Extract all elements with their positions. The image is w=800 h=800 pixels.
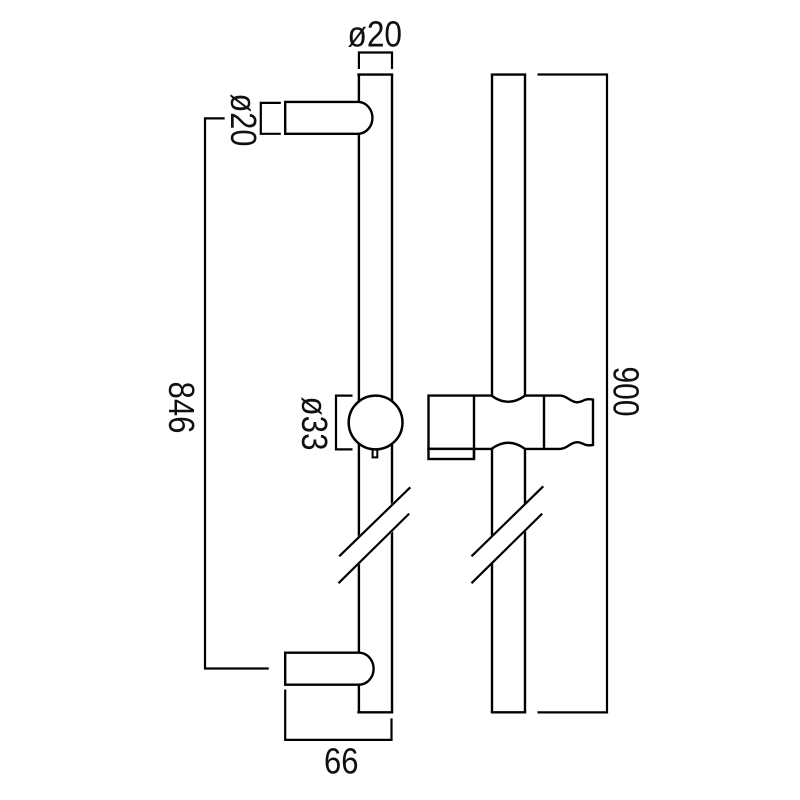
front view break slash upper <box>339 487 410 556</box>
side view break slash lower <box>472 514 543 584</box>
top wall bracket arm (front view) <box>285 102 372 134</box>
svg-text:ø20: ø20 <box>223 94 264 147</box>
svg-text:66: 66 <box>324 741 359 782</box>
front view break gap <box>339 500 410 569</box>
slider knob circle <box>349 396 403 450</box>
holder cup divider <box>543 396 545 449</box>
dimension bracket rail diameter top <box>359 53 392 70</box>
side view rail top cap <box>491 73 526 75</box>
dimension line 900 <box>538 75 608 713</box>
dimension line 846 <box>205 118 269 668</box>
dimension bracket arm tube diameter <box>261 103 281 134</box>
bottom wall bracket arm (front view) <box>285 653 373 685</box>
side view rail right edge <box>524 75 526 713</box>
svg-text:ø33: ø33 <box>294 397 335 451</box>
shower head holder body (side view) <box>429 396 594 449</box>
svg-text:846: 846 <box>161 382 202 434</box>
front view rail right edge <box>391 75 393 713</box>
dimension bracket knob diameter <box>336 396 353 450</box>
front view rail top cap <box>357 73 393 75</box>
holder wall plate lower strip <box>429 449 475 459</box>
side view break slash upper <box>472 486 544 556</box>
front view break slash lower <box>339 514 410 584</box>
side view break gap <box>472 500 543 570</box>
side view rail bottom cap <box>491 711 526 713</box>
svg-text:ø20: ø20 <box>348 14 403 55</box>
dimension line 66 <box>285 690 391 740</box>
slider knob tab <box>373 445 378 457</box>
svg-text:900: 900 <box>606 367 647 417</box>
holder wall plate right edge <box>473 396 475 459</box>
front view rail left edge <box>358 75 360 713</box>
front view rail bottom cap <box>357 711 393 713</box>
side view rail left edge <box>491 75 493 713</box>
